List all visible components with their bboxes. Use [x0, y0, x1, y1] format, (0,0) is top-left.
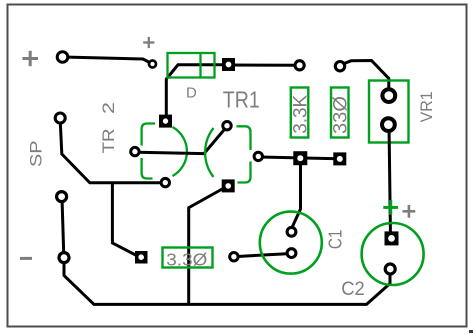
pad P3 (square) [222, 58, 235, 71]
transistor TR2 outline [142, 124, 187, 179]
svg-text:3.3K: 3.3K [290, 94, 311, 133]
label 330 [330, 96, 351, 134]
svg-text:2: 2 [100, 102, 118, 114]
diode D outline [168, 53, 215, 78]
transistor TR1 outline [205, 126, 250, 182]
label + (C2 polarity, green) [383, 200, 398, 215]
pad TR2 emitter [161, 178, 169, 186]
label + (gray, right of green) [403, 205, 416, 218]
capacitor C2 outline [362, 223, 424, 285]
wire ground rail (SP3 down, along bottom, up to C2 minus pad) [64, 259, 390, 304]
wire P12 to C1 bottom pad [235, 254, 292, 257]
pad P2 [149, 61, 156, 68]
wire P3 to P4 [229, 64, 299, 67]
resistor R2 (330) outline [331, 88, 349, 138]
svg-text:C1: C1 [326, 230, 346, 250]
pad P5 [335, 61, 344, 70]
wire TR1 right pad to square pads D,E [260, 157, 338, 159]
pad P1 [57, 52, 68, 63]
wire SP top pad to TR2 emitter pad [60, 120, 163, 183]
pad VR1.1 [382, 89, 395, 102]
label 3.3K [290, 94, 311, 133]
svg-text:TR1: TR1 [223, 87, 260, 113]
pad TR1 top [223, 122, 231, 130]
svg-text:VR1: VR1 [418, 91, 436, 122]
label TR 2 [100, 128, 118, 153]
label + (supply positive, top-left) [23, 51, 39, 66]
pad TR1 bottom (square) [222, 179, 235, 192]
wire diode (TR2 base pad up through D to square pad P3) [166, 65, 229, 120]
wire TR1 bottom pad down to ground rail [189, 188, 224, 304]
pad C2.1 (square, plus) [385, 231, 399, 245]
pad E (square) [333, 152, 346, 165]
label SP [27, 141, 46, 168]
svg-text:33Ø: 33Ø [330, 96, 351, 134]
svg-text:TR: TR [100, 128, 118, 153]
pad F (square, speaker return) [135, 251, 148, 264]
pad C2.2 (minus) [385, 264, 395, 274]
svg-text:D: D [186, 85, 197, 102]
pad TR2 base (square) [159, 115, 172, 128]
wire VR1 bottom pad down to C2 plus pad [389, 125, 391, 238]
wire P5 to VR1 top pad [342, 61, 389, 96]
resistor R1 (3.3K) outline [291, 88, 309, 138]
resistor R3 (3.30) outline [163, 248, 213, 268]
pad P12 [230, 253, 238, 261]
wire TR2 collector pad to TR1 top pad [137, 128, 226, 154]
pad TR1 right [254, 152, 262, 160]
label + (small, above P2) [143, 37, 154, 48]
trimmer VR1 outline [369, 81, 409, 143]
label - (supply negative) [20, 257, 32, 260]
wire SP2 to SP3 [62, 198, 64, 256]
pad SP3 [59, 253, 69, 263]
pad C1.2 [287, 249, 296, 258]
svg-text:3.3Ø: 3.3Ø [166, 249, 207, 269]
speck (bottom-right artifact) [469, 330, 473, 333]
wire from pad P1 to pad P2 [63, 57, 153, 64]
wire square pad D down to C1 top pad [292, 159, 301, 228]
pad C1.1 [287, 227, 296, 236]
capacitor C1 outline [260, 212, 322, 274]
pad TR2 collector [131, 147, 139, 155]
svg-text:C2: C2 [341, 278, 365, 300]
wire junction down to square pad F [112, 183, 139, 257]
pad VR1.2 [382, 118, 395, 131]
label C1 [326, 230, 346, 250]
pad SP2 [57, 192, 67, 202]
pad D (square) [293, 151, 307, 165]
label VR1 [418, 91, 436, 122]
svg-text:SP: SP [27, 141, 46, 168]
pad P4 [295, 61, 304, 70]
pad SP1 [55, 113, 65, 123]
